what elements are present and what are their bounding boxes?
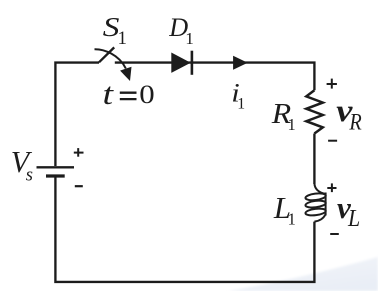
- svg-text:1: 1: [288, 115, 296, 134]
- svg-text:0: 0: [139, 80, 154, 110]
- svg-text:1: 1: [237, 96, 245, 113]
- svg-text:R: R: [348, 109, 361, 134]
- svg-text:L: L: [347, 205, 360, 231]
- svg-text:s: s: [26, 165, 33, 185]
- svg-text:1: 1: [118, 28, 127, 49]
- svg-text:t: t: [103, 76, 115, 111]
- svg-text:1: 1: [288, 210, 296, 229]
- svg-text:1: 1: [185, 29, 194, 48]
